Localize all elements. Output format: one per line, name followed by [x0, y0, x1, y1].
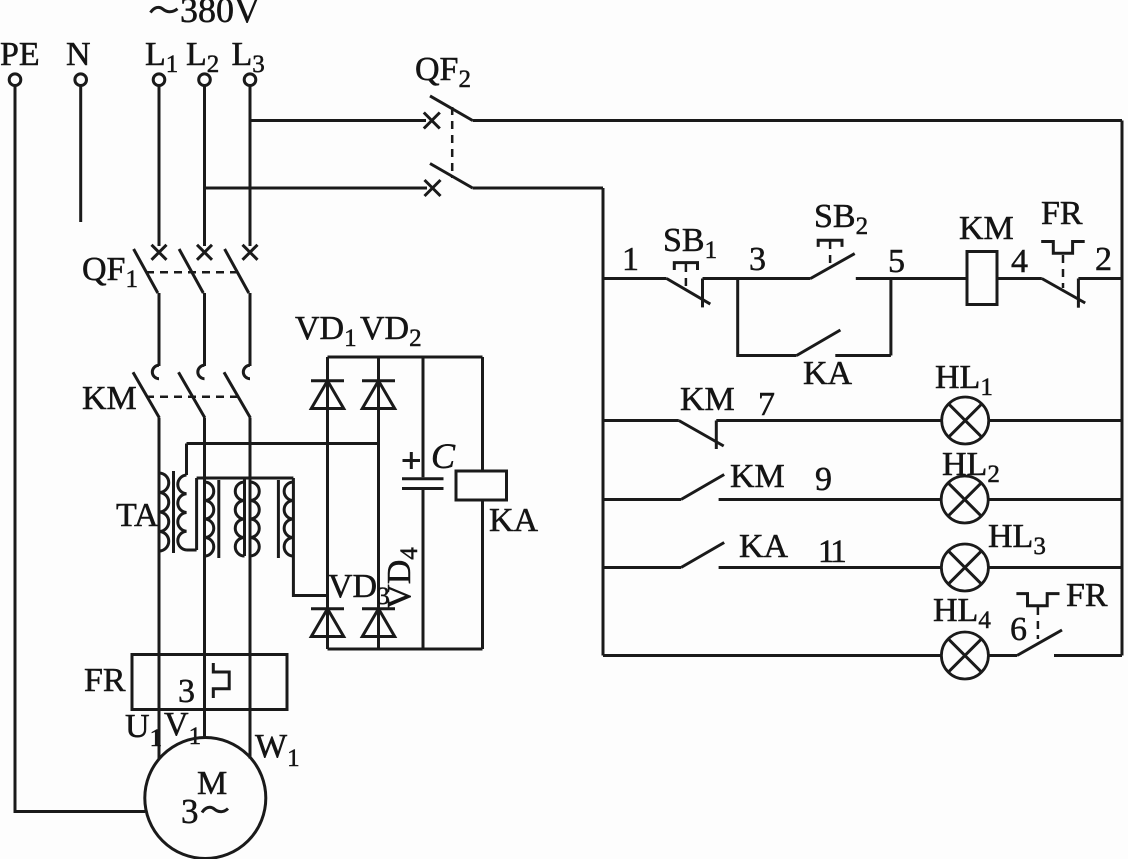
svg-text:TA: TA: [116, 497, 159, 534]
wire HL1 row left: [603, 419, 679, 422]
breaker QF2 pole1 cross: [424, 113, 440, 129]
capacitor plus sign: [403, 452, 421, 469]
breaker QF1 pole2: [179, 245, 212, 366]
contactor KM linkage: [146, 395, 238, 398]
capacitor C branch: [422, 357, 425, 649]
svg-text:KM: KM: [680, 381, 735, 418]
wire L2 to QF2 pole2: [205, 187, 428, 190]
svg-text:KA: KA: [803, 355, 853, 392]
wire HL2 row left: [603, 498, 681, 501]
wire L3 down to QF1: [249, 86, 252, 246]
svg-text:7: 7: [758, 386, 775, 423]
wire FR to right bus: [1078, 277, 1122, 280]
label ~380V: [151, 7, 178, 12]
wire U1 to motor: [158, 655, 161, 759]
svg-text:FR: FR: [1041, 195, 1083, 232]
svg-text:11: 11: [818, 534, 845, 570]
overload FR blade: [1042, 279, 1085, 304]
wire HL1 to right bus: [988, 419, 1122, 422]
FR heater element: [213, 663, 229, 698]
wire V1 to motor: [203, 655, 206, 738]
pushbutton SB2 actuator: [818, 240, 842, 247]
svg-text:N: N: [66, 36, 91, 73]
wire T1 secondary top to bridge: [187, 442, 379, 445]
svg-text:KA: KA: [489, 502, 539, 539]
wire secondary series link: [197, 477, 294, 480]
transformer T2 secondary: [243, 478, 246, 556]
overload FR actuator: [1041, 242, 1085, 254]
svg-text:380V: 380V: [180, 0, 260, 30]
contact KM row1 blade: [679, 421, 724, 447]
overload FR row4 actuator: [1016, 594, 1059, 606]
svg-text:3: 3: [181, 792, 199, 831]
svg-text:2: 2: [1095, 241, 1112, 278]
svg-text:3: 3: [749, 241, 766, 278]
transformer T2 primary: [203, 482, 206, 655]
svg-text:PE: PE: [0, 36, 40, 73]
svg-text:6: 6: [1010, 611, 1027, 648]
breaker QF2 pole2 cross: [425, 180, 441, 196]
svg-text:5: 5: [888, 243, 905, 280]
transformer T3 primary: [249, 482, 252, 655]
transformer T2 core: [217, 480, 220, 558]
bridge right leg: [377, 357, 380, 649]
wire L1 down to QF1: [158, 86, 161, 246]
relay contact KA blade: [797, 330, 841, 356]
wire HL4 row left: [603, 654, 942, 657]
wire to HL1: [716, 419, 942, 422]
wire HL4 to FR contact: [988, 654, 1017, 657]
wire L2 down to QF1: [203, 86, 206, 246]
bridge top rail: [328, 356, 483, 359]
svg-text:3: 3: [178, 673, 195, 710]
svg-text:KM: KM: [82, 380, 137, 417]
contactor coil KM: [967, 252, 997, 305]
wire to HL3: [719, 566, 942, 569]
breaker QF1 pole1: [134, 245, 167, 366]
pushbutton SB2 blade: [811, 254, 855, 279]
right bus: [1121, 121, 1124, 656]
wire W1 to motor: [249, 655, 252, 759]
contactor KM pole3: [224, 365, 250, 482]
pushbutton SB1 actuator: [674, 263, 697, 270]
left bus: [602, 188, 605, 656]
bridge left leg: [326, 357, 329, 649]
relay KA coil branch: [481, 357, 484, 649]
svg-text:FR: FR: [1066, 577, 1108, 614]
svg-text:KM: KM: [730, 458, 785, 495]
lamp HL2: [941, 476, 988, 523]
wire SB1 to SB2: [703, 277, 811, 280]
bridge bottom rail: [328, 648, 483, 651]
contact KM row1 bar: [715, 421, 718, 450]
lamp HL4: [941, 632, 988, 679]
FR heater box: [132, 655, 287, 710]
relay contact KA branch: [738, 279, 797, 356]
transformer T3 core: [277, 480, 280, 558]
capacitor C plates: [402, 479, 444, 489]
svg-text:4: 4: [1011, 243, 1028, 280]
svg-text:9: 9: [815, 461, 832, 498]
svg-text:KM: KM: [959, 210, 1014, 247]
breaker QF1 linkage: [146, 271, 238, 274]
overload FR contact bar: [1077, 279, 1080, 308]
transformer T1 core: [172, 471, 175, 553]
wire HL3 row left: [603, 566, 681, 569]
pushbutton SB1 blade: [667, 279, 711, 305]
transformer T1 secondary: [187, 444, 197, 551]
breaker QF2 linkage: [451, 107, 454, 178]
wire KM coil to FR: [997, 277, 1042, 280]
transformer T1 primary: [158, 473, 161, 655]
contact KM row2 blade: [681, 475, 724, 500]
breaker QF1 pole3: [225, 245, 258, 366]
svg-text:M: M: [197, 765, 227, 802]
overload FR row4 blade: [1017, 630, 1062, 656]
wire HL3 to right bus: [988, 566, 1122, 569]
motor M circle: [145, 738, 266, 859]
contactor KM pole1: [133, 365, 159, 473]
contactor KM pole2: [179, 365, 205, 482]
contact KA row3 blade: [681, 543, 724, 568]
relay KA coil: [456, 471, 507, 500]
svg-text:1: 1: [622, 241, 639, 278]
wire QF2 pole2 to left bus: [473, 187, 603, 190]
breaker QF2 pole2 blade: [430, 164, 473, 189]
transformer T3 secondary: [293, 478, 327, 596]
wire L3 to QF2 pole1: [250, 119, 426, 122]
diode VD2: [362, 379, 395, 382]
wire FR row4 to right bus: [1054, 654, 1122, 657]
diode VD4: [362, 607, 395, 610]
wire SB2 to KM coil: [856, 277, 967, 280]
diode VD1: [311, 379, 344, 382]
relay contact KA branch right: [835, 279, 891, 356]
diode VD3: [311, 607, 344, 610]
wire QF2 pole1 to right bus: [473, 119, 1122, 122]
breaker QF2 pole1 blade: [430, 96, 473, 121]
lamp HL3: [941, 544, 988, 591]
svg-text:FR: FR: [84, 662, 126, 699]
control row wire left: [603, 277, 667, 280]
svg-text:KA: KA: [739, 528, 789, 565]
wire HL2 to right bus: [988, 498, 1122, 501]
wire PE down and to motor: [15, 86, 145, 812]
wire to HL2: [719, 498, 942, 501]
svg-text:C: C: [431, 436, 456, 476]
lamp HL1: [942, 397, 989, 444]
pushbutton SB1 contact bar: [701, 279, 704, 308]
wire N: [79, 86, 82, 222]
